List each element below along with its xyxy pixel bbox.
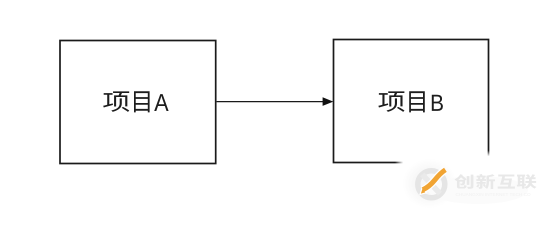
arrow from box A to box B	[217, 97, 334, 106]
watermark background	[395, 151, 549, 212]
watermark caption	[456, 192, 531, 197]
label 项目B	[378, 91, 443, 112]
box 项目A	[60, 41, 216, 164]
watermark text 创新互联	[455, 174, 537, 189]
box 项目B	[334, 40, 489, 163]
watermark logo (ring + X + orange swoosh)	[418, 170, 446, 198]
svg-text:CHUANGXIN INTERNET TECH CO: CHUANGXIN INTERNET TECH CO	[456, 192, 531, 197]
label 项目A	[103, 91, 168, 112]
